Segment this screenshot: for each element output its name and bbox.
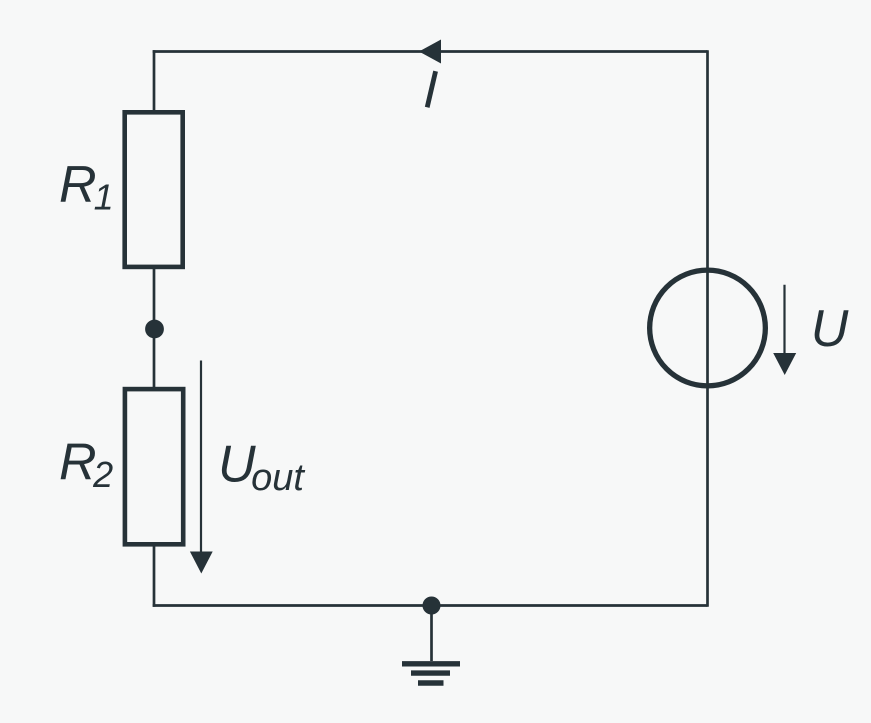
svg-text:U: U: [811, 300, 849, 358]
arrow U: [773, 285, 796, 375]
wire left upper: [153, 50, 156, 112]
wire left middle: [153, 267, 156, 389]
label I: [427, 71, 435, 107]
wire left lower: [153, 545, 156, 607]
arrow Uout: [190, 361, 213, 574]
node B (bottom, ground junction): [423, 597, 441, 615]
wire right: [706, 50, 709, 607]
node A (between R1 and R2): [145, 320, 164, 339]
resistor R2: [125, 389, 183, 544]
voltage source U1: [650, 270, 766, 386]
resistor R1: [125, 112, 183, 267]
current arrow I: [419, 40, 441, 64]
ground: [402, 606, 460, 684]
wire top: [153, 50, 708, 53]
wire bottom: [153, 604, 708, 607]
